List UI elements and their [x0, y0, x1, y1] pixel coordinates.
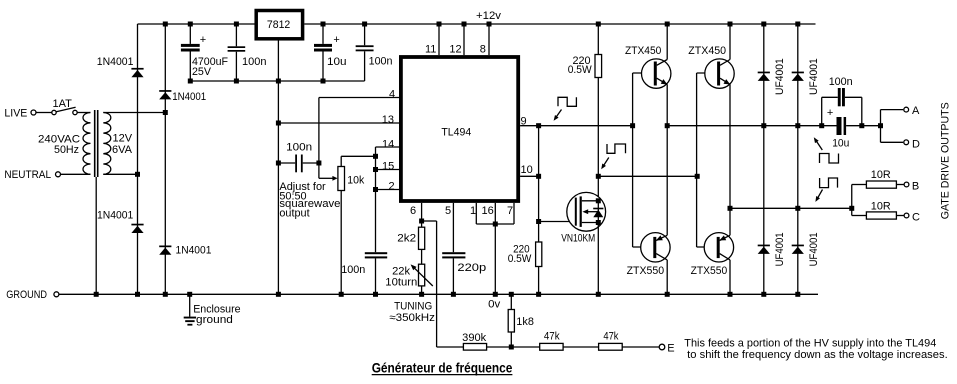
- wire: pins 1/16/7 to 0v: [494, 224, 496, 294]
- transistor Q2 ZTX450 (pair 1 NPN): [642, 59, 671, 88]
- wire: pin 13 to ground line: [278, 122, 399, 124]
- wire: pair2 emitter bus: [729, 84, 731, 235]
- svg-text:+: +: [333, 34, 339, 46]
- svg-text:A: A: [912, 105, 920, 117]
- svg-text:50Hz: 50Hz: [54, 144, 79, 156]
- diode D4 1N4001 (leg2 lower): [159, 246, 171, 255]
- wire: GROUND rail: [59, 293, 818, 295]
- svg-text:13: 13: [382, 114, 394, 126]
- wire: pin6 branch down to feedback line: [436, 221, 438, 347]
- wire: pin 15 to bus: [376, 169, 400, 171]
- svg-text:16: 16: [482, 205, 494, 217]
- svg-text:B: B: [912, 181, 919, 193]
- wire: 7812 ground pin down to ground rail: [277, 41, 279, 295]
- wire: pair2 base bus: [696, 73, 698, 247]
- wire: drain node to pair-2 bases: [598, 175, 697, 177]
- wire: 10k bottom to ground: [340, 191, 342, 295]
- svg-text:6VA: 6VA: [112, 144, 133, 156]
- svg-text:47k: 47k: [544, 330, 560, 342]
- wire: to output D: [881, 141, 904, 143]
- wire: pin 16 down: [494, 203, 496, 224]
- svg-text:4: 4: [389, 89, 395, 101]
- wire: 1k8 bottom lead: [510, 332, 512, 347]
- wire: +12V unregulated top rail (left of 7812): [138, 23, 255, 25]
- wire: pin 11 to +12v: [438, 24, 440, 55]
- arrow to pin 9 wire: [554, 110, 562, 121]
- svg-text:2k2: 2k2: [397, 233, 416, 245]
- wire: pin 1 down: [475, 203, 477, 224]
- wire: pin 4 left: [319, 97, 399, 99]
- wire: Q4 collector to +12v: [729, 24, 731, 60]
- svg-text:12: 12: [449, 44, 461, 56]
- switch SW 1AT: [52, 107, 77, 115]
- resistor R2 1k8: [508, 310, 514, 333]
- wire: secondary top to bridge leg 2: [103, 112, 165, 114]
- capacitor C7 220p: [442, 252, 465, 294]
- svg-text:+: +: [200, 34, 206, 46]
- ground symbol: enclosure ground: [184, 317, 196, 326]
- potentiometer RV2 22k arrow: [411, 264, 433, 286]
- svg-text:D: D: [912, 138, 920, 150]
- svg-text:ZTX550: ZTX550: [627, 265, 665, 277]
- resistor R3 390k: [463, 344, 486, 351]
- node LIVE terminal: [31, 110, 36, 115]
- svg-text:ground: ground: [196, 314, 233, 326]
- svg-text:to shift the frequency down as: to shift the frequency down as the volta…: [687, 349, 948, 361]
- svg-text:14: 14: [382, 138, 394, 150]
- svg-text:GROUND: GROUND: [6, 289, 47, 301]
- svg-text:≈350kHz: ≈350kHz: [389, 312, 435, 324]
- wire: pin 10 stub: [520, 175, 539, 177]
- wire: MOSFET source to ground: [597, 223, 599, 295]
- wire: pin 12 to +12v: [463, 24, 465, 55]
- svg-text:C: C: [912, 212, 920, 224]
- svg-text:12V: 12V: [113, 132, 133, 144]
- wire: R6 to ground: [538, 267, 540, 295]
- svg-text:7: 7: [507, 205, 513, 217]
- wire: bridge rectifier leg 2 (vertical): [164, 24, 166, 294]
- wire: pin 9 output to driver bases: [520, 125, 633, 127]
- svg-text:15: 15: [382, 160, 394, 172]
- wire: wiper arrow lead: [319, 177, 333, 179]
- diode D3 1N4001 (leg1 lower): [131, 224, 143, 233]
- svg-text:This feeds a portion of the HV: This feeds a portion of the HV supply in…: [684, 337, 936, 349]
- svg-text:10u: 10u: [832, 138, 849, 150]
- svg-text:+: +: [827, 107, 833, 119]
- svg-text:10R: 10R: [871, 200, 891, 212]
- wire: clamp diode column 2: [797, 24, 799, 294]
- wire: base lead Q3: [633, 246, 654, 248]
- wire: base lead Q2: [633, 72, 655, 74]
- svg-text:100n: 100n: [829, 76, 853, 88]
- resistor R4 47k: [540, 343, 563, 350]
- resistor R8 10R: [866, 181, 896, 188]
- wire: pin 8 to +12v: [488, 24, 490, 55]
- potentiometer RV1 10k wiper arrowhead: [332, 176, 337, 181]
- svg-text:VN10KM: VN10KM: [561, 233, 595, 245]
- svg-text:0.5W: 0.5W: [508, 253, 532, 265]
- svg-text:TUNING: TUNING: [394, 301, 432, 313]
- wire: 1k8 top lead: [510, 294, 512, 309]
- svg-text:UF4001: UF4001: [808, 58, 820, 95]
- node GROUND terminal: [54, 292, 59, 297]
- wire: R7 to MOSFET drain: [597, 78, 599, 201]
- svg-text:0v: 0v: [488, 299, 501, 311]
- wire: LIVE to switch: [36, 112, 52, 114]
- svg-text:220p: 220p: [457, 262, 486, 274]
- svg-text:10R: 10R: [871, 169, 891, 181]
- node E terminal: [659, 344, 665, 350]
- wire: pair2 output line: [730, 207, 852, 209]
- svg-text:100n: 100n: [369, 55, 393, 67]
- capacitor C6 100n (timing bus to ground): [365, 252, 387, 294]
- node B output terminal: [904, 182, 909, 187]
- node D output terminal: [904, 140, 909, 145]
- svg-text:9: 9: [521, 115, 527, 127]
- wire: enclosure ground tap: [189, 294, 191, 316]
- svg-text:UF4001: UF4001: [774, 58, 786, 95]
- resistor R1 2k2: [419, 227, 425, 249]
- svg-text:5: 5: [445, 205, 451, 217]
- wire: 10k top lead: [340, 156, 342, 166]
- node A output terminal: [904, 107, 909, 112]
- svg-text:10: 10: [521, 164, 533, 176]
- svg-text:TL494: TL494: [441, 126, 471, 138]
- squarewave symbol at output line 1: [820, 154, 839, 164]
- svg-text:1AT: 1AT: [53, 98, 73, 110]
- svg-text:6: 6: [410, 205, 416, 217]
- capacitor C8 10u electrolytic (series output): [837, 117, 847, 135]
- wire: pin14/15/2 bus down to 100n: [375, 147, 377, 252]
- wire: pin6 branch right: [422, 220, 437, 222]
- node C output terminal: [904, 213, 909, 218]
- wire: Q2 collector to +12v: [666, 24, 668, 60]
- svg-text:1: 1: [470, 205, 476, 217]
- svg-text:UF4001: UF4001: [808, 232, 820, 266]
- svg-text:8: 8: [480, 44, 486, 56]
- transformer T1 secondary winding 12V 6VA: [103, 113, 111, 175]
- resistor R5 47k: [599, 343, 623, 350]
- wire: 2k2 to 22k: [421, 249, 423, 264]
- resistor R7 220 0.5W (drain pull-up): [595, 55, 602, 78]
- wire: R7 top lead: [597, 24, 599, 55]
- svg-text:UF4001: UF4001: [774, 232, 786, 266]
- potentiometer RV2 22k 10turn body: [419, 264, 425, 286]
- svg-text:NEUTRAL: NEUTRAL: [4, 169, 51, 181]
- svg-text:100n: 100n: [341, 264, 365, 276]
- svg-text:GATE DRIVE OUTPUTS: GATE DRIVE OUTPUTS: [939, 102, 951, 219]
- svg-text:22k: 22k: [392, 265, 410, 277]
- wire: capacitor-bottom rail under 7812: [190, 80, 364, 82]
- transistor Q3 ZTX550 (pair 1 PNP): [641, 233, 670, 262]
- arrow to output line 2: [815, 190, 822, 202]
- wire: pin 14 left: [376, 146, 400, 148]
- wire: pin 2 to bus: [376, 189, 400, 191]
- resistor R9 10R: [866, 212, 896, 219]
- svg-text:1N4001: 1N4001: [172, 91, 206, 103]
- svg-text:10turn: 10turn: [385, 277, 417, 289]
- wire: 10k top to pin15/pin2 bus: [341, 155, 375, 157]
- svg-text:E: E: [667, 342, 674, 354]
- squarewave symbol at drain node: [607, 144, 626, 153]
- capacitor C9 100n (parallel output): [822, 88, 862, 126]
- wire: feedback line c: [563, 346, 599, 348]
- wire: pair1 base bus: [632, 73, 634, 247]
- wire: Q3 collector to ground: [666, 260, 668, 294]
- svg-text:47k: 47k: [603, 330, 619, 342]
- svg-text:100n: 100n: [242, 56, 267, 68]
- svg-text:+12v: +12v: [476, 10, 502, 22]
- transistor Q5 ZTX550 (pair 2 PNP): [704, 233, 733, 262]
- wire: gate drive vertical: [538, 126, 540, 242]
- squarewave symbol at pin 9: [558, 97, 576, 106]
- wire: pair1 emitter bus: [666, 84, 668, 235]
- svg-text:LIVE: LIVE: [4, 108, 27, 120]
- wire: transformer screen to ground: [95, 177, 97, 294]
- wire: to 10R B: [852, 184, 867, 186]
- diode D6 UF4001 (col2 upper): [792, 72, 804, 81]
- svg-text:10k: 10k: [347, 175, 364, 187]
- wire: A/D split vertical: [880, 110, 882, 143]
- wire: pin 5 down: [452, 203, 454, 252]
- svg-text:10u: 10u: [327, 56, 347, 68]
- diode D8 UF4001 (col2 lower): [792, 245, 804, 254]
- wire: feedback line b: [487, 346, 540, 348]
- wire: gate lead into MOSFET: [539, 221, 576, 223]
- wire: clamp diode column 1: [763, 24, 765, 294]
- diode D7 UF4001 (col1 lower): [758, 245, 770, 254]
- diode D1 1N4001 (leg1 upper): [131, 68, 143, 77]
- wire: bridge rectifier leg 1 (vertical): [137, 24, 139, 294]
- capacitor C4 100n: [356, 24, 374, 81]
- wire: pin 6 down: [421, 203, 423, 227]
- capacitor C3 10u electrolytic: [314, 24, 332, 81]
- wire: Q5 collector to ground: [729, 260, 731, 294]
- svg-text:ZTX450: ZTX450: [688, 45, 726, 57]
- svg-text:ZTX550: ZTX550: [691, 265, 728, 277]
- svg-text:1k8: 1k8: [516, 316, 534, 328]
- wire: feedback line to E: [622, 346, 659, 348]
- transformer T1 core: [95, 110, 98, 177]
- wire: to output A: [881, 109, 904, 111]
- wire: output cap to A/D split: [846, 125, 880, 127]
- wire: 22k to ground: [421, 286, 423, 294]
- svg-text:Générateur de fréquence: Générateur de fréquence: [372, 360, 513, 376]
- transistor Q1 VN10KM MOSFET: [567, 192, 606, 231]
- svg-text:1N4001: 1N4001: [97, 56, 134, 68]
- svg-text:1N4001: 1N4001: [176, 245, 212, 257]
- svg-text:390k: 390k: [462, 332, 486, 344]
- wire: pin 4 down to pot wiper: [318, 98, 320, 179]
- svg-text:25V: 25V: [192, 66, 212, 78]
- capacitor C5 100n (adjust for 50:50): [278, 155, 319, 173]
- arrow to drain node: [601, 158, 609, 170]
- transformer T1 primary winding 240VAC: [83, 113, 91, 175]
- wire: pins 1-16-7 tie: [476, 223, 514, 225]
- diode: MOSFET body diode: [593, 208, 603, 210]
- wire: feedback line a: [437, 346, 464, 348]
- svg-text:100n: 100n: [286, 142, 312, 154]
- wire: pin 7 down: [513, 203, 515, 224]
- svg-text:11: 11: [425, 44, 436, 56]
- wire: base lead Q5: [697, 246, 717, 248]
- diode D5 UF4001 (col1 upper): [758, 72, 770, 81]
- arrow to output line 1: [814, 137, 823, 150]
- svg-text:ZTX450: ZTX450: [625, 45, 661, 57]
- capacitor C1 4700uF 25V electrolytic: [181, 24, 200, 81]
- wire: +12v top rail (right of 7812): [304, 23, 815, 25]
- wire: to 10R C: [852, 215, 867, 217]
- potentiometer RV1 10k body: [338, 167, 345, 191]
- transistor Q4 ZTX450 (pair 2 NPN): [705, 59, 734, 88]
- svg-text:2: 2: [389, 180, 395, 192]
- capacitor C2 100n: [228, 24, 246, 81]
- svg-text:output: output: [279, 207, 309, 219]
- diode D2 1N4001 (leg2 upper): [159, 90, 171, 99]
- wire: NEUTRAL to transformer primary bottom: [61, 173, 91, 175]
- svg-text:1N4001: 1N4001: [97, 209, 133, 221]
- wire: switch to transformer primary: [77, 112, 90, 114]
- node NEUTRAL terminal: [56, 172, 61, 177]
- wire: B/C split vertical: [851, 185, 853, 216]
- wire: secondary bottom to bridge leg 1: [103, 173, 137, 175]
- wire: base lead Q4: [697, 72, 718, 74]
- svg-text:0.5W: 0.5W: [568, 64, 593, 76]
- wire: pair1 output line: [667, 125, 836, 127]
- regulator U2 7812: [256, 11, 302, 39]
- op-amp U1 TL494 PWM controller: [401, 57, 518, 201]
- resistor R6 220 0.5W (gate pull-down): [536, 242, 542, 267]
- svg-text:7812: 7812: [267, 19, 290, 31]
- squarewave symbol at output line 2: [820, 178, 838, 188]
- wire: 10R to C: [896, 215, 903, 217]
- wire: 10R to B: [896, 184, 903, 186]
